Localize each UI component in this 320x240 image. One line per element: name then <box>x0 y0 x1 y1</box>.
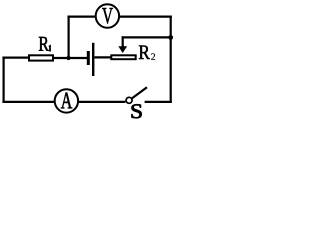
wire: row2 left edge to R1 <box>2 56 29 58</box>
label A <box>61 93 72 109</box>
rheostat R2 body <box>111 55 135 59</box>
switch blade (open) <box>132 87 147 98</box>
wire: ammeter to switch <box>79 101 126 103</box>
label R2 <box>139 45 150 58</box>
wire: wiper to right vertical <box>122 36 172 38</box>
node: wiper junction on right wire <box>168 35 173 40</box>
wire: voltmeter to top right corner <box>120 16 172 18</box>
wire: left vertical side <box>2 57 4 103</box>
voltmeter V circle <box>96 4 119 27</box>
wire: right vertical side <box>170 16 172 104</box>
wire: switch right stub to corner <box>145 101 172 103</box>
ammeter A circle <box>55 89 78 112</box>
battery positive plate (long thin) <box>92 43 94 76</box>
node: junction of voltmeter branch and main row <box>66 56 70 60</box>
wire: top left horizontal to voltmeter <box>68 16 96 18</box>
wire: R1 to battery <box>54 57 87 59</box>
label V <box>102 8 113 23</box>
wire: battery to R2 <box>94 56 111 58</box>
switch pivot circle <box>126 97 132 103</box>
battery negative plate (short thick) <box>87 51 90 65</box>
label R1 <box>39 37 49 51</box>
label S <box>132 104 142 118</box>
wire: voltmeter branch left vertical <box>67 16 69 59</box>
rheostat wiper arrow stem <box>122 36 124 47</box>
rheostat wiper arrowhead <box>118 46 127 53</box>
resistor R1 <box>29 55 53 60</box>
wire: bottom left to ammeter <box>2 101 54 103</box>
